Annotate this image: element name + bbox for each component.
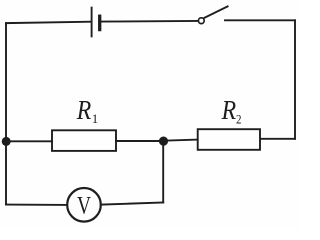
- svg-text:2: 2: [236, 112, 242, 127]
- battery: short thick plate (-): [98, 16, 101, 29]
- svg-text:V: V: [77, 193, 91, 220]
- switch: open lever arm: [204, 6, 227, 18]
- wire: middle vertical (middle node down): [162, 141, 164, 203]
- svg-text:R: R: [221, 95, 237, 125]
- label R1: [76, 95, 98, 126]
- wire: top-left horizontal (left corner to battery): [6, 22, 91, 23]
- svg-text:1: 1: [92, 111, 99, 126]
- wire: R1 to middle node: [116, 140, 164, 142]
- voltmeter V circle: [67, 188, 101, 222]
- wire: left node to R1: [6, 140, 52, 142]
- wire: switch to top-right corner: [225, 19, 295, 21]
- node: left junction dot: [2, 137, 11, 146]
- wire: right vertical: [294, 20, 296, 139]
- switch: pivot circle: [198, 18, 204, 24]
- svg-text:R: R: [76, 95, 92, 125]
- wire: battery to switch: [101, 20, 198, 23]
- node: middle junction dot: [159, 137, 168, 146]
- wire: bottom-left (corner to voltmeter): [6, 204, 67, 206]
- resistor R2 box: [198, 129, 260, 150]
- wire: left vertical: [5, 23, 7, 205]
- wire: voltmeter to bottom-right corner: [101, 203, 163, 205]
- battery: long plate (+): [91, 8, 93, 37]
- resistor R1 box: [52, 130, 116, 151]
- label R2: [221, 95, 242, 127]
- wire: R2 to right corner: [260, 138, 295, 140]
- wire: middle node to R2: [164, 140, 198, 141]
